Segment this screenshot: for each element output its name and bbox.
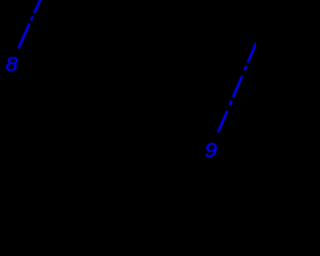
center line 8 (dash-dot) — [18, 0, 45, 48]
svg-text:8: 8 — [5, 54, 18, 76]
patent-style drawing fragment: black background, blue center lines with labels 8 and 9 — [0, 0, 256, 256]
svg-text:9: 9 — [205, 140, 218, 162]
center line 9 (dash-dot) — [218, 43, 256, 133]
